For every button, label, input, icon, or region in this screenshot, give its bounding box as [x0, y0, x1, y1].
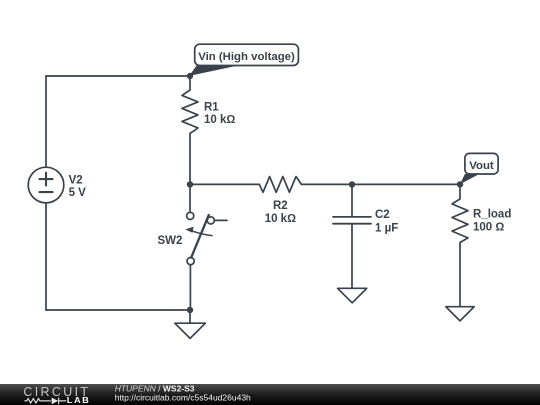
resistor R2 (horizontal) zigzag — [259, 177, 301, 193]
wire top from V2 branch to Vin node — [46, 75, 190, 77]
switch SW2 throw stub wire — [215, 219, 228, 221]
junction node at C2 top — [349, 181, 355, 187]
svg-text:1 µF: 1 µF — [375, 223, 398, 235]
svg-text:Vin (High voltage): Vin (High voltage) — [198, 51, 295, 63]
Vout flag box — [465, 153, 498, 174]
capacitor C2 top lead wire — [351, 184, 353, 216]
capacitor C2 top plate — [333, 216, 371, 218]
V2 minus sign — [40, 191, 53, 193]
footer bar — [0, 384, 540, 405]
svg-text:R_load: R_load — [473, 209, 511, 221]
svg-text:C2: C2 — [375, 209, 390, 221]
svg-text:10 kΩ: 10 kΩ — [265, 213, 296, 225]
Vout flag pointer wedge — [460, 174, 479, 184]
svg-text:100 Ω: 100 Ω — [473, 222, 504, 234]
svg-text:10 kΩ: 10 kΩ — [204, 114, 235, 126]
capacitor C2 bottom plate — [333, 223, 371, 225]
wire left vertical top (corner to V2 plus terminal) — [45, 76, 47, 167]
svg-text:5 V: 5 V — [69, 187, 87, 199]
wire from R2 right lead to Vout node — [301, 183, 460, 185]
switch SW2 top lead wire — [189, 184, 191, 212]
ground symbol at bottom rail — [175, 323, 206, 338]
junction node at Vin — [187, 73, 193, 79]
ground stub below bottom rail — [189, 310, 191, 323]
switch SW2 blade — [191, 215, 209, 258]
resistor R_load (vertical) with leads — [452, 184, 468, 306]
svg-text:V2: V2 — [69, 175, 83, 187]
ground symbol under C2 — [338, 288, 367, 303]
switch SW2 top terminal circle — [187, 212, 194, 219]
svg-text:Vout: Vout — [469, 160, 494, 172]
svg-text:http://circuitlab.com/c5s54ud2: http://circuitlab.com/c5s54ud26u43h — [115, 393, 251, 403]
wire bottom rail to ground junction — [46, 309, 190, 311]
switch SW2 throw terminal circle — [207, 217, 214, 224]
switch SW2 toggle arc — [190, 230, 213, 236]
junction node at R1 bottom / R2 / switch — [187, 181, 193, 187]
resistor R1 (vertical) with leads — [182, 76, 198, 184]
Vin flag box — [195, 44, 299, 65]
svg-text:R1: R1 — [204, 102, 219, 114]
svg-text:R2: R2 — [273, 200, 288, 212]
switch SW2 bottom terminal circle — [187, 258, 194, 265]
junction node at Vout — [457, 181, 463, 187]
switch SW2 bottom lead wire — [189, 265, 191, 310]
switch SW2 toggle arrowhead — [185, 227, 193, 233]
capacitor C2 bottom lead wire to ground — [351, 225, 353, 288]
V2 plus sign — [40, 173, 53, 186]
Vin flag pointer wedge — [189, 66, 238, 76]
CircuitLab logo resistor zigzag — [24, 399, 50, 404]
voltage source V2 circle — [28, 167, 64, 203]
ground symbol under R_load — [446, 307, 474, 321]
svg-text:LAB: LAB — [67, 395, 91, 405]
wire left vertical bottom (V2 minus terminal to bottom rail) — [45, 203, 47, 310]
junction node at ground rail — [187, 307, 193, 313]
CircuitLab logo diode — [52, 398, 59, 405]
svg-text:SW2: SW2 — [158, 235, 183, 247]
wire from mid junction to R2 left lead — [190, 183, 259, 185]
